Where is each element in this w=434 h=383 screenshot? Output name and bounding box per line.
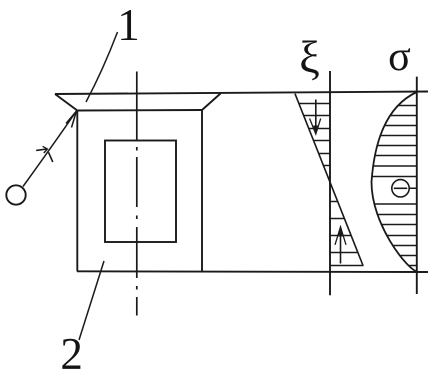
block top edge — [77, 109, 202, 112]
center dash-dot line — [136, 72, 138, 316]
indicator arrowhead — [66, 111, 77, 128]
weld bead trapezoid right slant — [202, 94, 221, 111]
leader line of label 1 — [86, 32, 118, 102]
xi hatch lines lower — [330, 202, 357, 253]
block right edge — [201, 110, 203, 272]
block left edge — [76, 111, 78, 272]
svg-text:1: 1 — [117, 0, 140, 50]
xi up arrow — [340, 235, 342, 264]
indicator arrow line — [23, 111, 77, 187]
leader line of label 2 — [79, 261, 104, 340]
svg-text:ξ: ξ — [299, 32, 320, 83]
svg-text:σ: σ — [388, 34, 411, 80]
xi hatch lines upper — [299, 104, 330, 178]
sigma distribution curve — [372, 92, 417, 272]
bottom surface line — [77, 270, 428, 273]
sigma axis — [416, 77, 418, 294]
top surface line — [55, 92, 428, 95]
xi down arrow — [315, 100, 317, 129]
xi region bottom closure — [330, 265, 364, 267]
indicator circle — [6, 185, 25, 204]
minus sign circle — [392, 180, 409, 197]
inner rectangle (element 2 core) — [105, 141, 176, 243]
tick mark on arrow line — [36, 149, 47, 150]
xi distribution line — [295, 94, 363, 266]
weld bead trapezoid left slant — [55, 94, 77, 111]
sigma hatch lines — [373, 106, 417, 266]
xi axis — [329, 71, 331, 295]
